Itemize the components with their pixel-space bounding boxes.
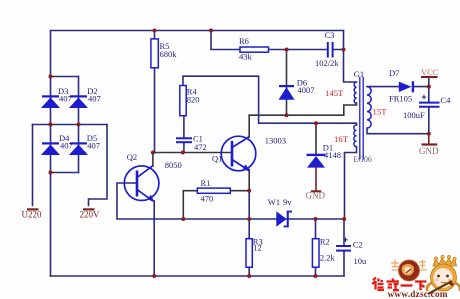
resistor R1 <box>197 188 230 193</box>
wire C1 leads <box>183 116 185 153</box>
watermark logo <box>372 255 460 299</box>
junction node C1/Q1-base <box>181 151 185 155</box>
junction node AC-right <box>77 123 81 127</box>
svg-text:16T: 16T <box>334 134 349 144</box>
junction node 16T/C2 <box>342 217 346 221</box>
transistor Q2 <box>124 166 159 201</box>
diode D6 <box>279 85 295 100</box>
badge circle <box>399 260 420 281</box>
junction node clamp (R6/C3/D6) <box>285 48 289 52</box>
transformer secondary 15T <box>367 87 371 129</box>
capacitor C1 <box>176 138 192 142</box>
junction node R5-top <box>153 29 157 33</box>
junction node D7-cathode/VCC <box>427 85 431 89</box>
wire top B+ <box>51 30 344 32</box>
wire bridge bottom link <box>51 172 79 174</box>
diode D7 <box>399 81 414 92</box>
svg-text:470: 470 <box>201 194 214 204</box>
svg-text:407: 407 <box>59 94 72 104</box>
red brand text strokes <box>372 278 426 291</box>
svg-text:Q1: Q1 <box>212 153 222 163</box>
ground bar under C4 <box>422 143 438 145</box>
diode D5 <box>69 142 88 155</box>
wire C3 link <box>287 49 344 51</box>
junction node bridge-top <box>49 75 53 79</box>
capacitor C4 <box>419 103 440 107</box>
zener W1 <box>276 211 292 228</box>
svg-text:GND: GND <box>306 190 326 200</box>
svg-text:407: 407 <box>88 94 101 104</box>
resistor R5 <box>151 39 158 68</box>
junction node R2-top <box>314 217 318 221</box>
svg-text:EG06: EG06 <box>353 155 372 164</box>
svg-text:407: 407 <box>60 141 73 151</box>
power VCC bar <box>421 76 438 78</box>
junction node Q1-emitter/R3 <box>247 217 251 221</box>
svg-text:VCC: VCC <box>421 67 439 77</box>
svg-text:D7: D7 <box>389 68 399 78</box>
ground bar under D1 <box>311 190 322 192</box>
svg-text:43k: 43k <box>239 52 253 62</box>
svg-text:R1: R1 <box>201 178 211 188</box>
svg-text:680k: 680k <box>160 49 178 59</box>
svg-text:C3: C3 <box>325 30 335 40</box>
svg-text:G1: G1 <box>354 69 364 79</box>
wire R4 feedback loop to 16T top <box>183 76 357 125</box>
svg-text:4007: 4007 <box>298 85 315 95</box>
wire R5 branch <box>154 31 156 153</box>
wire left rail <box>50 31 52 277</box>
svg-text:820: 820 <box>187 95 200 105</box>
transformer winding 16T <box>354 125 357 147</box>
svg-text:Q2: Q2 <box>127 152 137 162</box>
mascot <box>427 255 460 294</box>
svg-text:4148: 4148 <box>324 150 341 160</box>
svg-text:10u: 10u <box>354 256 368 266</box>
junction node R1-right/Q1-emitter <box>247 189 251 193</box>
resistor R4 <box>180 86 186 116</box>
capacitor C3 <box>328 42 333 58</box>
svg-text:C4: C4 <box>441 95 452 105</box>
transformer primary 145T <box>354 82 356 103</box>
junction node D6-anode <box>285 113 289 117</box>
terminal 220V <box>83 208 95 210</box>
junction node R1-left <box>181 217 185 221</box>
wire C2 column <box>343 219 345 276</box>
junction node R3-bottom <box>247 274 251 278</box>
transformer G1 core <box>360 77 363 160</box>
svg-text:2.2k: 2.2k <box>320 253 336 263</box>
diode D3 <box>41 95 60 108</box>
wire bottom B- <box>51 275 345 277</box>
junction node bridge-bottom <box>49 171 53 175</box>
terminal U220 <box>27 208 39 210</box>
junction node AC-left <box>49 123 53 127</box>
junction node C3-right <box>342 48 346 52</box>
wire Q2 base loop and long base net <box>117 183 344 219</box>
svg-text:145T: 145T <box>325 88 344 98</box>
svg-text:15T: 15T <box>373 107 388 117</box>
junction node R6-branch <box>209 29 213 33</box>
wire Q1 emitter <box>248 170 250 191</box>
wire R6 branch <box>211 31 287 50</box>
badge ghost text <box>391 260 427 271</box>
capacitor C2 <box>336 246 351 251</box>
wire Q1 collector <box>248 115 250 137</box>
junction node secondary-return/GND <box>427 132 431 136</box>
wire Q2 collector <box>152 153 154 167</box>
svg-text:407: 407 <box>87 141 100 151</box>
wire VCC rail <box>428 78 430 134</box>
wire D1 column <box>315 123 317 154</box>
svg-text:R6: R6 <box>239 36 249 46</box>
wire R1 leads <box>183 191 249 219</box>
resistor R3 <box>246 239 252 268</box>
wire Q1 base net <box>153 152 232 154</box>
svg-text:100uF: 100uF <box>403 110 425 120</box>
wire D6 column <box>286 50 288 116</box>
svg-text:220V: 220V <box>80 210 101 220</box>
wire bridge right column <box>78 77 80 173</box>
diode D2 <box>69 95 88 108</box>
wire snubber right vertical to primary top <box>344 31 357 83</box>
wire collector net A to primary bottom <box>249 103 356 115</box>
wire GND drop right <box>428 134 430 144</box>
svg-text:www.dzsc.com: www.dzsc.com <box>388 290 448 299</box>
svg-text:C2: C2 <box>353 240 363 250</box>
wire 220V lead <box>89 125 108 206</box>
wire 16T bottom column <box>345 147 357 220</box>
junction node R5-bottom/Q2-collector <box>151 151 155 155</box>
svg-text:R2: R2 <box>320 237 330 247</box>
transistor Q1 <box>221 136 256 171</box>
svg-text:GND: GND <box>419 146 439 156</box>
wire Q2 emitter <box>153 201 155 276</box>
wire bridge top link <box>51 76 79 78</box>
resistor R6 <box>240 47 269 52</box>
wire secondary bottom <box>367 128 429 134</box>
diode D4 <box>41 142 60 155</box>
junction node R2-bottom <box>314 274 318 278</box>
junction node D1-cathode <box>314 121 318 125</box>
resistor R2 <box>312 239 319 268</box>
junction node Q2-emitter/ground rail <box>152 274 156 278</box>
wire R2 leads <box>315 219 317 276</box>
wire U220 lead <box>32 125 34 206</box>
svg-text:102/2k: 102/2k <box>315 58 339 68</box>
svg-text:9v: 9v <box>283 197 292 207</box>
diode D1 <box>307 154 326 168</box>
wire secondary to D7 <box>367 86 429 88</box>
svg-text:W1: W1 <box>268 197 280 207</box>
svg-text:8050: 8050 <box>165 160 182 170</box>
svg-text:472: 472 <box>194 142 207 152</box>
wire AC mid rail <box>33 124 108 126</box>
svg-text:U220: U220 <box>22 210 42 220</box>
svg-text:12: 12 <box>253 243 261 253</box>
svg-text:13003: 13003 <box>265 136 286 146</box>
svg-text:FR105: FR105 <box>389 94 412 104</box>
